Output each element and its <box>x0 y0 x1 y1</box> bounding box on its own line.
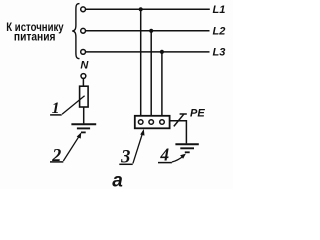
bolted joint symbol on PE wire <box>174 114 187 126</box>
svg-text:питания: питания <box>14 29 56 43</box>
wire drop from L2 to terminal block <box>150 31 152 116</box>
ground 4 (PE earth electrode) <box>175 144 198 152</box>
terminal circle L3 <box>81 50 86 55</box>
terminal circle L2 <box>81 28 86 33</box>
wire N to fuse <box>82 79 84 87</box>
wire PE from terminal block <box>170 121 187 144</box>
wire L2 <box>86 30 210 32</box>
wire L1 <box>86 8 210 10</box>
node on L2 <box>149 29 153 33</box>
svg-text:а: а <box>112 170 123 189</box>
wire drop from L1 to terminal block <box>140 9 142 116</box>
wire fuse to ground <box>83 107 85 123</box>
brace <box>72 4 79 59</box>
wire L3 <box>86 51 210 53</box>
svg-text:4: 4 <box>159 144 169 164</box>
label "К источнику питания" <box>6 20 64 43</box>
wire drop from L3 to terminal block <box>161 52 163 116</box>
fuse 1 (neutral disconnect link) <box>80 86 89 107</box>
callout 4 (digit, underline, arrow leader to PE ground) <box>158 144 186 164</box>
svg-text:L3: L3 <box>213 47 226 59</box>
svg-text:PE: PE <box>190 107 205 119</box>
node on L1 <box>139 7 143 11</box>
svg-text:L2: L2 <box>213 26 226 38</box>
ground 2 (earth electrode) <box>71 124 96 132</box>
svg-text:L1: L1 <box>213 4 226 16</box>
node on L3 <box>160 50 164 54</box>
callout 2 (digit, underline, arrow leader to ground) <box>50 132 81 165</box>
terminal circle L1 <box>81 7 86 12</box>
terminal circle N <box>81 74 86 79</box>
terminal block 3 <box>135 116 170 129</box>
callout 1 (digit, underline, leader to fuse) <box>50 96 85 117</box>
svg-text:N: N <box>80 60 89 72</box>
callout 3 (digit, underline, arrow leader to terminal block) <box>119 129 144 168</box>
